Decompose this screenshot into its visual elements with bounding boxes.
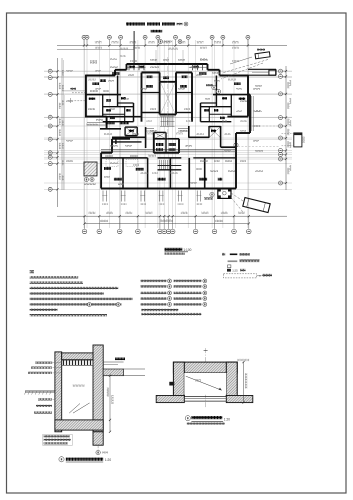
- exterior wall right lower: [236, 133, 250, 189]
- notes heading: [30, 270, 34, 273]
- centre top small callouts: [156, 40, 183, 65]
- axon sketch box: [243, 198, 270, 213]
- detail 1 window well plan: [156, 348, 253, 407]
- right inner dim texts: [290, 80, 292, 171]
- plan header second line: [151, 30, 163, 33]
- plan header annotation: [126, 22, 145, 25]
- basement window marks below bottom wall: [102, 191, 202, 206]
- notes left column: [30, 276, 133, 316]
- plan title: [165, 248, 192, 255]
- right axis bubbles: [279, 69, 287, 185]
- exterior wall lower-left steps: [86, 117, 142, 189]
- left inner dim lines: [62, 60, 65, 190]
- window well leader to axon sketch: [231, 193, 243, 212]
- window marks below left wall y116: [86, 122, 129, 126]
- right duct detail box: [282, 133, 305, 147]
- detail 2 top-right ground label: [103, 358, 125, 365]
- right dimension column: [285, 66, 290, 190]
- left dimension column: [56, 58, 62, 207]
- left axis bubbles: [48, 69, 57, 191]
- svg-text:1:20: 1:20: [224, 417, 230, 421]
- left hatched light well: [84, 162, 97, 185]
- air-shaft callout circles: [212, 85, 216, 89]
- left dashed leader: [62, 88, 86, 103]
- detail 2 left labels lower: [34, 398, 55, 413]
- bottom dimension lines: [57, 212, 287, 225]
- interior walls upper-right unit (mirrored): [201, 76, 249, 122]
- detail 1 right dimension: [237, 359, 249, 404]
- centre stair mass: [158, 160, 182, 170]
- garage corridor lines: [101, 150, 236, 158]
- detail 2 left labels upper: [28, 362, 62, 374]
- detail 2 material list: [43, 435, 73, 446]
- detail 1 caption: [185, 416, 230, 425]
- air-shaft leader diagonals: [221, 57, 268, 79]
- detail 2 wall below: [93, 432, 108, 455]
- section cut line: [133, 31, 135, 64]
- mid band shaft rooms right: [189, 126, 236, 147]
- exterior wall right unit + wing: [248, 69, 276, 133]
- interior walls upper-left unit: [86, 76, 142, 122]
- notes right column: [141, 279, 207, 315]
- elevator shaft cross: [161, 57, 176, 140]
- detail 2 right dimension: [107, 375, 114, 433]
- interior annotations: [88, 59, 260, 185]
- core mid landing lines: [146, 129, 188, 135]
- garage partitions: [123, 158, 205, 189]
- parking dashed boxes: [106, 160, 138, 167]
- bottom window well: [218, 189, 231, 199]
- detail 2 caption: [59, 457, 111, 463]
- top right air-shaft slanted box: [255, 52, 270, 59]
- central pump rooms: [154, 132, 179, 153]
- exterior wall upper-left unit: [86, 64, 127, 118]
- mid band shaft rooms left: [112, 127, 146, 148]
- top axis bubbles: [82, 35, 250, 45]
- right side dashed leaders: [238, 126, 280, 147]
- top protrusion shafts: [127, 64, 208, 70]
- svg-text:1:25: 1:25: [232, 269, 238, 273]
- exterior wall bottom: [101, 187, 236, 189]
- right wall window lines: [252, 96, 254, 131]
- notes line6 callout circles: [87, 303, 91, 307]
- stair treads: [160, 117, 175, 127]
- room labels: [89, 72, 246, 132]
- svg-text:1:100: 1:100: [183, 248, 191, 252]
- grid axis lines: [44, 40, 292, 228]
- central core walls: [142, 73, 193, 122]
- drain symbol: [234, 143, 238, 147]
- exterior wall centre top protrusion: [127, 64, 249, 76]
- bottom axis bubbles: [82, 216, 251, 234]
- storage labels: [104, 167, 222, 181]
- detail 2 window well section: [24, 345, 145, 432]
- misc inner dimension text: [66, 55, 263, 178]
- svg-text:1:20: 1:20: [105, 458, 111, 462]
- top dimension line: [57, 41, 287, 50]
- legend: [222, 253, 272, 278]
- window well callout: [210, 192, 214, 196]
